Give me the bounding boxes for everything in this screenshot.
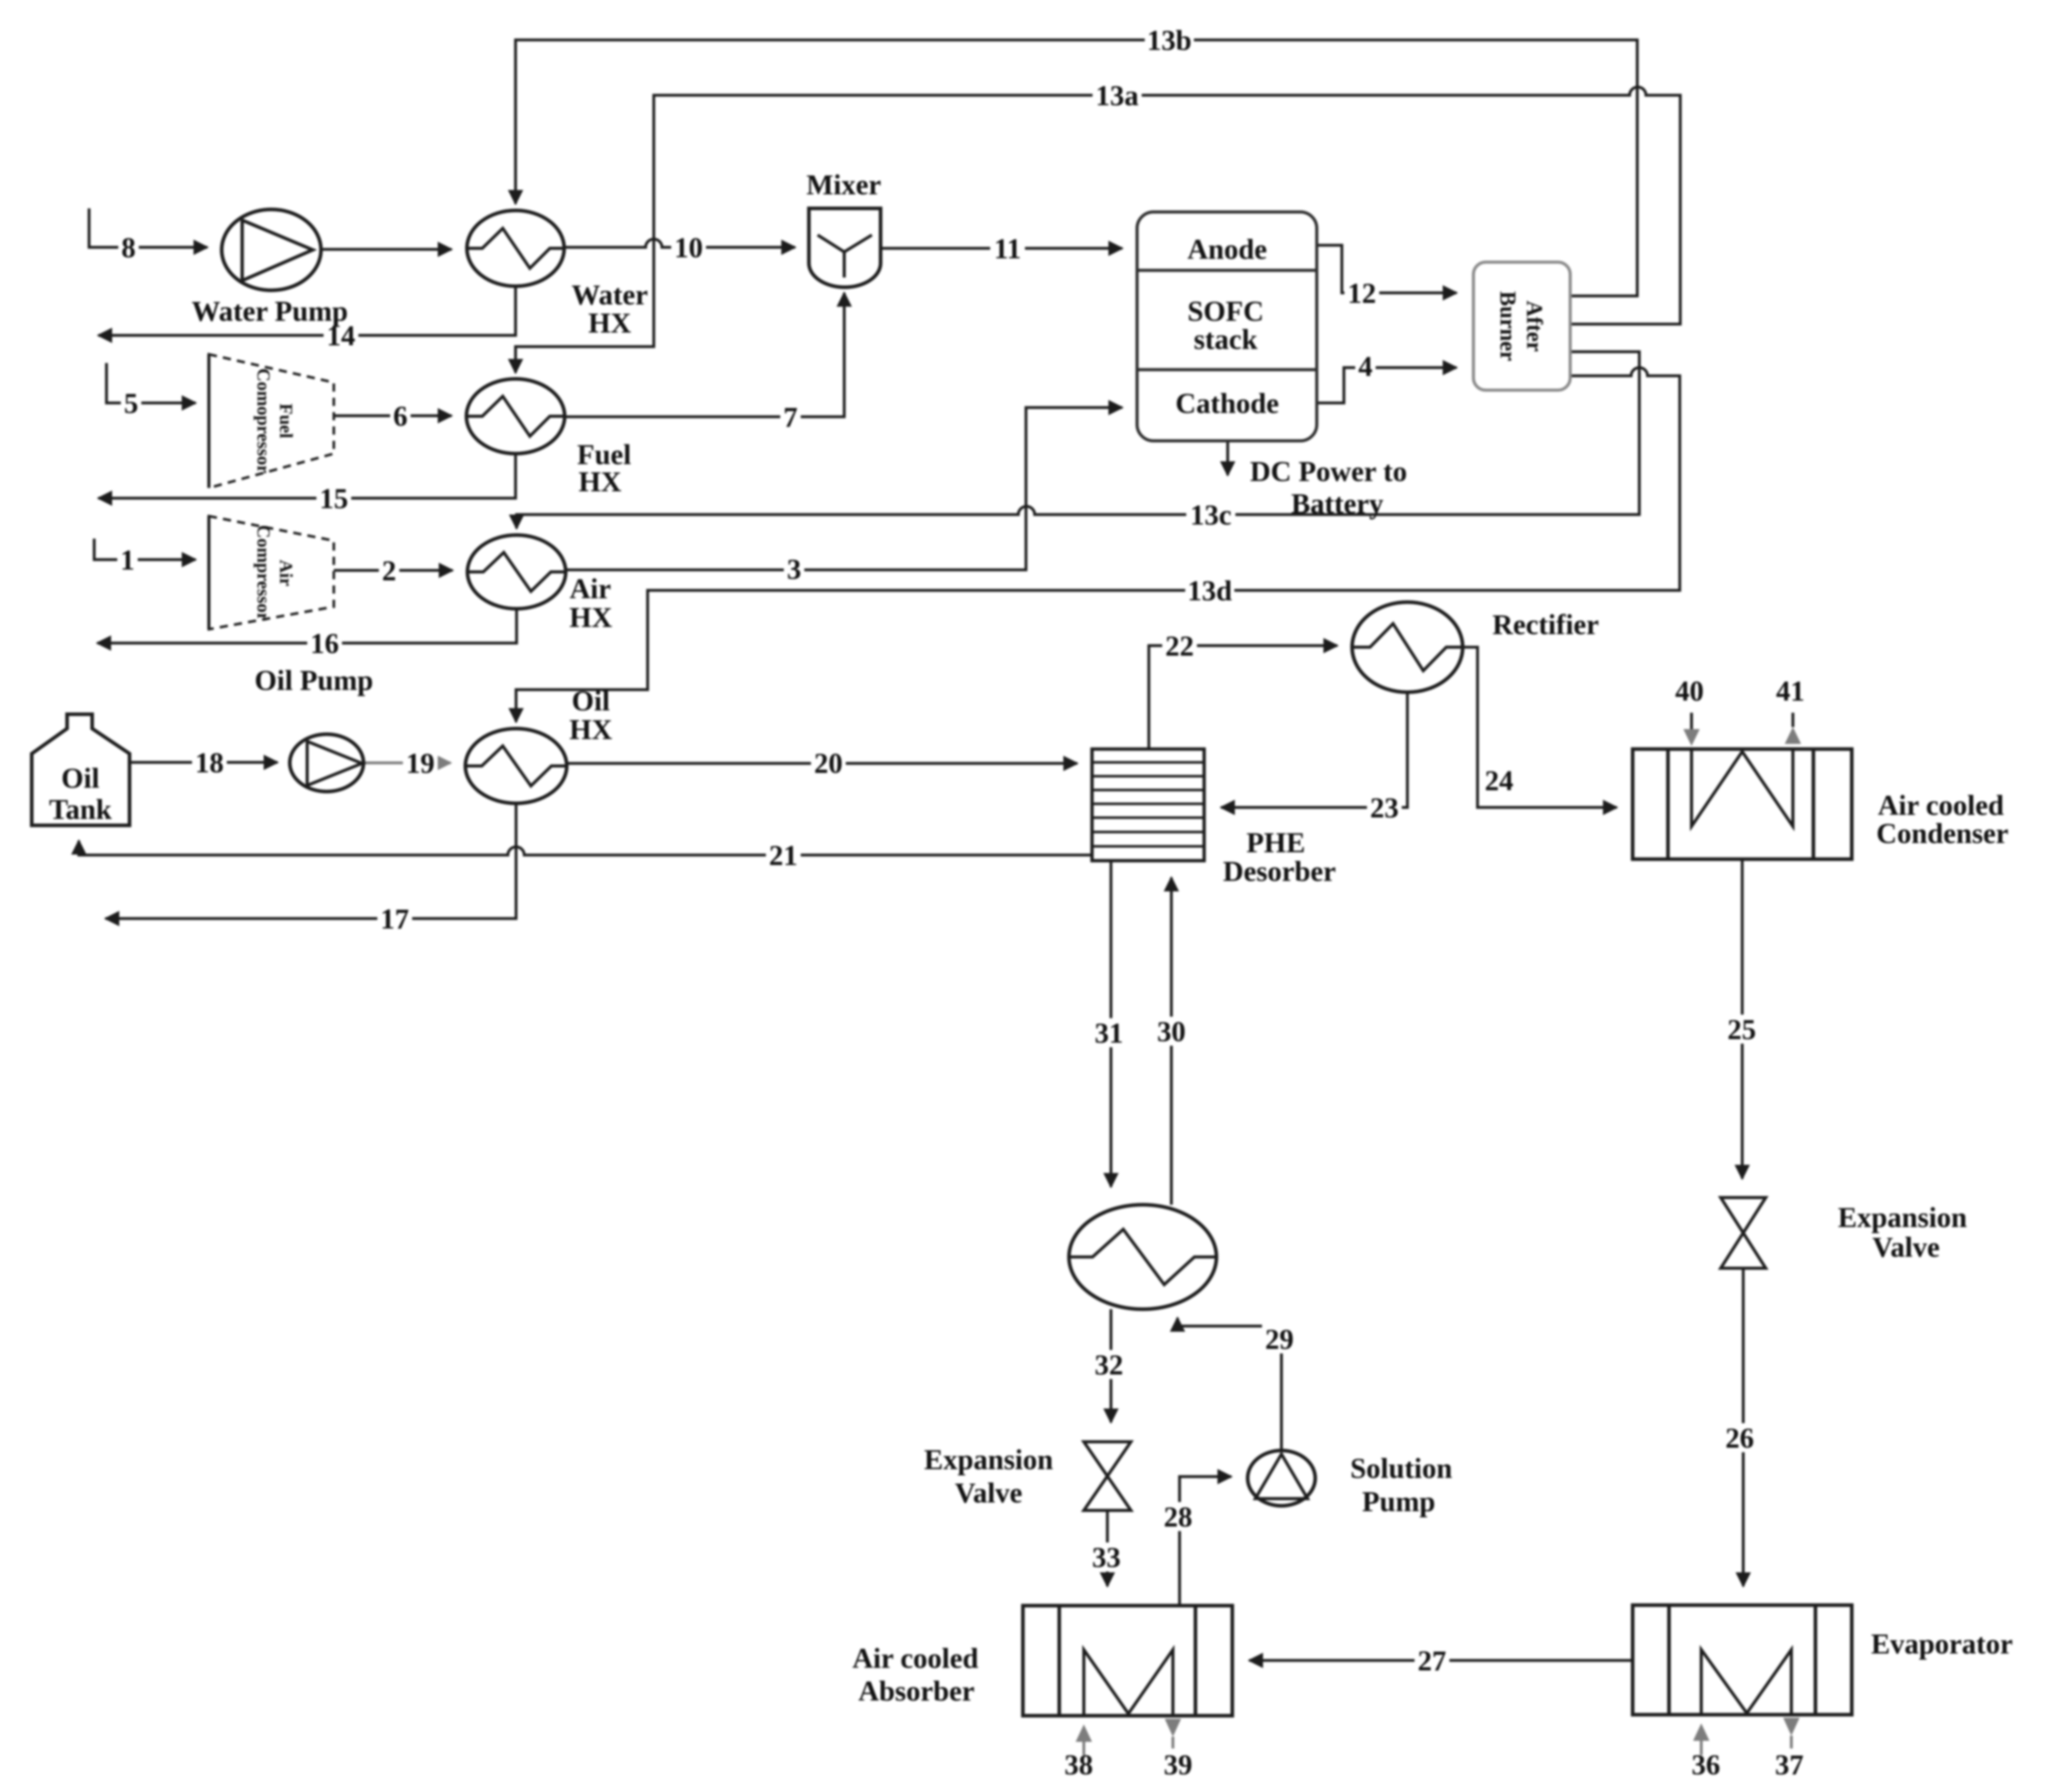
wire 15: Fuel HX return <box>98 453 516 498</box>
svg-text:PHE: PHE <box>1246 827 1305 859</box>
wire 21: PHE desorber to oil tank (hops over line-17 drop) <box>79 841 1092 855</box>
svg-text:18: 18 <box>195 747 224 779</box>
Oil HX <box>465 729 567 803</box>
svg-text:Evaporator: Evaporator <box>1871 1628 2013 1660</box>
wire 12: anode outlet to after burner <box>1317 245 1457 293</box>
wire 28: absorber to solution pump <box>1180 1477 1231 1606</box>
wire 13d: after-burner outlet 4 to Oil HX (hops over 13c riser) <box>516 368 1680 722</box>
svg-text:Absorber: Absorber <box>858 1675 974 1707</box>
wire 13a: after-burner outlet 2 to Fuel HX (hops over 13b riser) <box>516 87 1680 373</box>
svg-text:33: 33 <box>1092 1542 1121 1573</box>
after burner label <box>1495 291 1547 361</box>
fuel compressor (dashed trapezoid) <box>209 354 334 488</box>
svg-text:Expansion: Expansion <box>924 1444 1053 1476</box>
water pump <box>222 209 321 290</box>
svg-text:23: 23 <box>1370 792 1399 824</box>
wire 18: oil tank to oil pump <box>130 761 277 764</box>
expansion valve (refrigerant side) <box>1721 1198 1766 1268</box>
mixer vessel <box>809 208 881 287</box>
svg-text:Burner: Burner <box>1495 291 1521 361</box>
svg-text:41: 41 <box>1776 675 1805 707</box>
wire 4: cathode outlet to after burner <box>1317 368 1457 403</box>
wire 16: Air HX return <box>97 608 517 643</box>
svg-text:Cathode: Cathode <box>1175 388 1279 419</box>
svg-text:1: 1 <box>120 544 135 576</box>
svg-text:SOFC: SOFC <box>1187 295 1264 327</box>
wire 3: Air HX to cathode <box>566 408 1122 570</box>
oil pump <box>290 734 363 792</box>
wire 30: solution HX to PHE desorber <box>1170 878 1173 1205</box>
wire 19: oil pump to Oil HX (grey) <box>363 761 451 764</box>
svg-text:Battery: Battery <box>1291 488 1383 520</box>
air cooled absorber <box>1023 1606 1232 1716</box>
air compressor label <box>253 525 296 621</box>
svg-text:13d: 13d <box>1187 575 1232 607</box>
solution pump <box>1248 1450 1315 1506</box>
svg-text:Oil: Oil <box>61 762 100 794</box>
svg-text:Comopressor: Comopressor <box>253 368 274 473</box>
wire 10: Water HX to mixer (hops over 13a riser) <box>565 239 795 247</box>
stream 36 arrow into evaporator (grey) <box>1693 1723 1709 1755</box>
stream 39 arrow out of absorber (grey) <box>1165 1719 1181 1748</box>
svg-text:13c: 13c <box>1190 499 1232 531</box>
svg-text:Desorber: Desorber <box>1223 856 1336 887</box>
svg-text:Oil: Oil <box>572 685 610 717</box>
svg-text:HX: HX <box>588 307 631 339</box>
wire 13c: after-burner outlet 3 to Air HX (hops over line-3 riser) <box>517 352 1639 528</box>
svg-text:31: 31 <box>1095 1017 1123 1049</box>
svg-text:Rectifier: Rectifier <box>1492 609 1599 641</box>
svg-text:19: 19 <box>406 748 435 779</box>
svg-text:13a: 13a <box>1096 80 1139 112</box>
svg-text:25: 25 <box>1727 1014 1756 1046</box>
wire: DC power arrow from SOFC stack <box>1226 441 1229 475</box>
fuel compressor label <box>253 368 296 473</box>
svg-text:13b: 13b <box>1147 25 1191 56</box>
svg-text:36: 36 <box>1692 1749 1720 1781</box>
wire 32: solution HX to expansion valve <box>1109 1309 1112 1422</box>
wire 27: evaporator to absorber <box>1249 1659 1633 1662</box>
wire 2: air compressor to Air HX <box>334 569 453 572</box>
svg-text:Air: Air <box>276 560 296 586</box>
svg-text:22: 22 <box>1165 630 1194 662</box>
after burner <box>1473 262 1570 390</box>
expansion valve (solution side) <box>1084 1442 1131 1510</box>
wire 1: feed hook to air compressor <box>94 539 196 560</box>
svg-text:29: 29 <box>1265 1324 1294 1355</box>
wire 6: fuel compressor to Fuel HX <box>334 414 452 417</box>
svg-text:HX: HX <box>569 602 612 633</box>
svg-text:39: 39 <box>1164 1749 1192 1781</box>
stream 41 arrow out of condenser (grey) <box>1785 713 1801 744</box>
wire 7: Fuel HX to mixer bottom <box>565 293 844 417</box>
svg-text:Solution: Solution <box>1350 1453 1452 1484</box>
svg-text:Water: Water <box>571 279 648 311</box>
svg-text:Valve: Valve <box>955 1477 1022 1509</box>
svg-text:20: 20 <box>814 748 843 779</box>
wire 25: condenser to expansion valve <box>1741 859 1744 1179</box>
svg-text:30: 30 <box>1157 1016 1186 1048</box>
wire 33: expansion valve to absorber <box>1106 1510 1109 1586</box>
Water HX <box>467 210 564 286</box>
svg-text:7: 7 <box>783 401 798 433</box>
wire 20: Oil HX to PHE desorber <box>567 762 1077 765</box>
svg-text:Fuel: Fuel <box>276 403 296 438</box>
svg-text:Oil Pump: Oil Pump <box>254 665 373 696</box>
air cooled condenser <box>1633 749 1852 859</box>
svg-text:stack: stack <box>1194 324 1258 355</box>
svg-text:12: 12 <box>1347 278 1376 309</box>
PHE desorber (plate stack) <box>1092 749 1204 861</box>
svg-text:DC Power to: DC Power to <box>1250 456 1407 487</box>
Air HX <box>467 535 566 609</box>
wire 8: feed hook to water pump <box>89 208 207 247</box>
svg-text:Water Pump: Water Pump <box>191 295 348 327</box>
wire 11: mixer to anode <box>882 247 1122 250</box>
stream 37 arrow out of evaporator (grey) <box>1783 1718 1800 1748</box>
svg-text:Air cooled: Air cooled <box>852 1642 978 1674</box>
wire 14: Water HX return <box>98 285 516 335</box>
svg-text:Mixer: Mixer <box>806 169 881 201</box>
svg-text:8: 8 <box>121 232 136 264</box>
wire 13b: after-burner top outlet to Water HX <box>516 40 1637 296</box>
stream 40 arrow into condenser (grey) <box>1683 713 1700 746</box>
svg-text:Compressor: Compressor <box>253 525 274 621</box>
svg-text:Air cooled: Air cooled <box>1878 790 2004 821</box>
svg-text:38: 38 <box>1064 1749 1093 1781</box>
oil tank <box>32 714 130 825</box>
svg-text:2: 2 <box>382 555 396 587</box>
svg-text:26: 26 <box>1725 1422 1754 1454</box>
rectifier heat exchanger <box>1352 602 1463 692</box>
svg-text:27: 27 <box>1418 1645 1446 1677</box>
svg-text:Air: Air <box>570 573 611 605</box>
wire 5: feed hook to fuel compressor <box>106 363 196 403</box>
svg-text:Expansion: Expansion <box>1838 1202 1967 1233</box>
wire 24: rectifier to air cooled condenser <box>1462 647 1617 807</box>
Fuel HX <box>466 379 565 454</box>
svg-text:16: 16 <box>310 628 339 659</box>
evaporator <box>1633 1605 1852 1715</box>
svg-text:HX: HX <box>569 714 612 745</box>
svg-text:15: 15 <box>319 483 348 515</box>
wire: water pump to Water HX <box>313 248 452 251</box>
svg-text:4: 4 <box>1358 351 1373 382</box>
svg-text:24: 24 <box>1485 765 1513 797</box>
svg-text:3: 3 <box>787 553 801 585</box>
svg-text:Tank: Tank <box>49 794 112 825</box>
stream labels <box>118 233 139 262</box>
SOFC stack <box>1137 212 1317 441</box>
svg-text:Condenser: Condenser <box>1876 818 2008 849</box>
svg-text:11: 11 <box>994 233 1021 265</box>
wire 29: solution pump to solution HX <box>1178 1318 1281 1450</box>
stream 38 arrow into absorber (grey) <box>1076 1724 1092 1755</box>
svg-text:40: 40 <box>1675 675 1704 707</box>
svg-text:21: 21 <box>769 840 798 871</box>
svg-text:Valve: Valve <box>1872 1231 1940 1263</box>
svg-text:Anode: Anode <box>1187 233 1267 265</box>
svg-text:10: 10 <box>674 232 703 264</box>
svg-text:Pump: Pump <box>1362 1486 1435 1518</box>
air compressor (dashed trapezoid) <box>209 516 334 629</box>
svg-text:32: 32 <box>1095 1349 1123 1381</box>
svg-text:17: 17 <box>380 903 409 935</box>
svg-text:HX: HX <box>579 466 622 498</box>
wire 26: expansion valve to evaporator <box>1742 1268 1745 1586</box>
wire 17: Oil HX return <box>105 802 516 919</box>
wire 31: PHE desorber to solution HX <box>1109 861 1112 1187</box>
wire 22: PHE desorber to rectifier <box>1149 646 1337 749</box>
wire 23: rectifier bottom to PHE desorber <box>1221 692 1407 807</box>
svg-text:5: 5 <box>124 388 138 419</box>
svg-text:37: 37 <box>1775 1749 1804 1781</box>
solution heat exchanger <box>1069 1205 1216 1309</box>
svg-text:28: 28 <box>1164 1501 1192 1533</box>
svg-text:6: 6 <box>393 400 408 432</box>
svg-text:After: After <box>1522 301 1547 352</box>
